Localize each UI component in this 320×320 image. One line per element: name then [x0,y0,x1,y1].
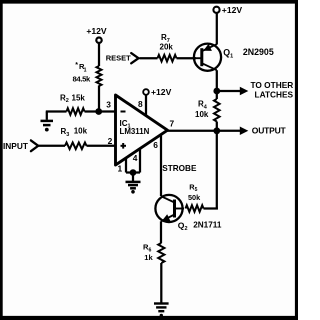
resistor R4 10k [195,99,220,121]
svg-text:8: 8 [138,99,143,109]
node: latch junction [213,88,220,95]
node: junction R1/R2/pin 3 [95,108,102,115]
wire: R3 to pin 2 [87,145,116,147]
svg-text:LATCHES: LATCHES [255,90,294,100]
pin 4 wire [133,148,140,173]
op-amp IC1 LM311N [116,95,168,165]
svg-text:10k: 10k [74,127,88,136]
wire: pin 7 to output node [168,130,217,132]
wire: Q1 collector to latch node [216,70,218,91]
input terminal INPUT [3,140,38,151]
wire: INPUT to R3 [39,145,66,147]
arrow TO OTHER LATCHES [217,80,294,100]
svg-text:*: * [75,62,78,69]
wire: latch node to R4 to output node [216,91,218,131]
wire: Q2 emitter to R6 [160,221,162,243]
svg-text:2N2905: 2N2905 [243,47,274,57]
svg-text:6: 6 [153,140,158,150]
pin 8 [138,99,143,109]
wire: pin 6 strobe line [160,135,162,197]
svg-text:10k: 10k [195,110,209,119]
power terminal +12V (pin 8) [143,87,171,115]
svg-text:RESET: RESET [106,53,131,62]
svg-text:INPUT: INPUT [3,141,28,151]
svg-text:1k: 1k [144,253,153,262]
ground (left, R2) [41,112,54,132]
svg-text:1: 1 [84,68,87,74]
wire: RESET to R7 [140,57,158,59]
svg-text:+12V: +12V [151,87,172,97]
resistor R2 15k [60,93,85,114]
resistor R6 1k [143,243,164,263]
svg-text:OUTPUT: OUTPUT [252,125,287,135]
resistor R5 50k [186,182,204,211]
wire: +12V to Q1 emitter [216,13,218,44]
pin 7 [170,119,175,129]
svg-text:LM311N: LM311N [120,127,150,136]
ground (IC pins 1,4) [126,173,141,194]
svg-text:20k: 20k [160,42,174,51]
wire: ground to R2 [46,110,67,112]
power terminal +12V (feeds R1) [86,26,107,43]
reset input RESET [106,53,139,63]
svg-text:+12V: +12V [222,5,243,15]
net label STROBE [162,164,197,173]
svg-text:3: 3 [106,100,111,110]
svg-text:50k: 50k [188,193,201,202]
wire: R2 to pin 3 [85,110,116,112]
wire: +12V terminal to R1 [98,43,100,67]
wire: pins 1+4 tie [126,171,140,173]
power terminal +12V (Q1 emitter) [213,5,242,15]
svg-text:TO OTHER: TO OTHER [251,80,294,90]
resistor R1 84.5k [73,62,102,86]
node: output junction [213,127,220,134]
output arrow OUTPUT [217,125,287,135]
transistor Q2 2N1711 [155,195,221,232]
svg-text:2: 2 [108,136,113,146]
pin 3 [106,100,111,110]
svg-text:15k: 15k [72,93,86,102]
svg-text:4: 4 [133,153,138,163]
wire: R6 to ground [160,263,162,303]
wire: R5 to output node [204,131,218,210]
node: IC ground junction [130,169,137,176]
wire: R1 to pin-3 node [98,86,100,112]
svg-text:1: 1 [118,163,123,173]
resistor R7 20k [158,33,177,62]
pin 6 [153,140,158,150]
svg-text:7: 7 [170,119,175,129]
transistor Q1 2N2905 [194,44,274,71]
svg-text:STROBE: STROBE [162,164,197,173]
pin 2 [108,136,113,146]
resistor R3 10k [61,127,88,150]
svg-text:+12V: +12V [86,26,107,36]
pin 1 wire [118,158,127,174]
ground (bottom) [154,304,169,318]
svg-text:84.5k: 84.5k [73,74,92,83]
wire: R7 to Q1 base [177,57,197,59]
svg-text:2N1711: 2N1711 [193,221,222,230]
